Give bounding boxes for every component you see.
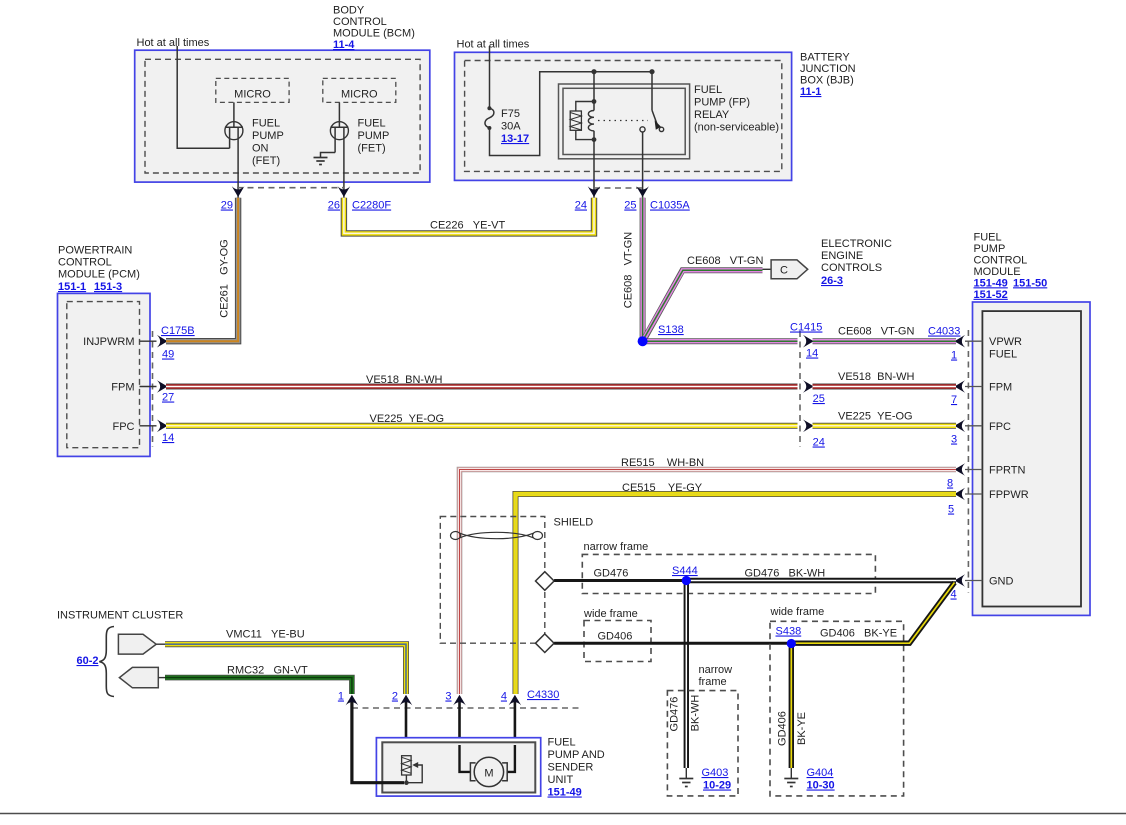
- svg-text:151-49: 151-49: [974, 277, 1008, 289]
- svg-text:CE608 VT-GN: CE608 VT-GN: [838, 326, 914, 338]
- C4330 pin 3 arrow: [458, 698, 461, 745]
- svg-text:49: 49: [162, 349, 174, 361]
- svg-text:GD406: GD406: [598, 631, 633, 643]
- svg-text:INSTRUMENT CLUSTER: INSTRUMENT CLUSTER: [57, 610, 183, 622]
- svg-text:3: 3: [445, 691, 451, 703]
- svg-text:VE225 YE-OG: VE225 YE-OG: [370, 413, 445, 425]
- svg-text:11-1: 11-1: [800, 86, 821, 98]
- splice S444: [682, 576, 691, 585]
- wire CE608 VT-GN (BJB 25 down to S138): [640, 198, 646, 338]
- C4330 pin 2 arrow: [405, 698, 408, 757]
- svg-text:5: 5: [948, 504, 954, 516]
- svg-text:151-3: 151-3: [94, 281, 122, 293]
- svg-text:PUMP: PUMP: [252, 130, 284, 142]
- module BCM box: [135, 50, 430, 182]
- svg-text:BOX (BJB): BOX (BJB): [800, 75, 854, 87]
- narrow frame lower dashed box: [667, 691, 738, 796]
- svg-text:INJPWRM: INJPWRM: [83, 336, 134, 348]
- relay coil: [588, 111, 594, 131]
- wire CE608 VT-GN (S138 to C1415): [643, 338, 798, 344]
- svg-text:C1035A: C1035A: [650, 200, 690, 212]
- dotted actuation line: [598, 120, 648, 122]
- svg-text:30A: 30A: [501, 121, 521, 133]
- pin FPC: [965, 425, 982, 427]
- wire RMC32 GN-VT: [165, 678, 352, 694]
- micro box 2: [323, 78, 396, 102]
- connector arrow (cluster out): [118, 634, 166, 654]
- svg-text:ENGINE: ENGINE: [821, 250, 863, 262]
- wire GD406 (diamond to S438): [554, 642, 791, 645]
- wire relay coil vertical to pin 24: [593, 72, 595, 198]
- svg-text:MODULE (PCM): MODULE (PCM): [58, 269, 140, 281]
- shield dashed box: [440, 517, 545, 644]
- wire pin3 to motor: [460, 745, 471, 772]
- svg-text:GD406: GD406: [777, 711, 789, 746]
- svg-text:MICRO: MICRO: [234, 89, 271, 101]
- FPCM inner box: [982, 311, 1081, 606]
- wire CE608 VT-GN (C1415 to FPCM 1): [813, 338, 957, 344]
- splice S138: [638, 336, 648, 346]
- svg-text:GD476: GD476: [669, 697, 681, 732]
- svg-text:FPPWR: FPPWR: [989, 489, 1029, 501]
- transistor FET2 (FUEL PUMP): [330, 122, 348, 198]
- svg-text:G404: G404: [807, 767, 834, 779]
- C1415 pin 24 arrow: [803, 420, 814, 433]
- svg-text:BK-YE: BK-YE: [796, 712, 808, 745]
- svg-text:151-52: 151-52: [974, 289, 1008, 301]
- narrow frame dashed box: [582, 554, 875, 593]
- wire VE225 YE-OG (PCM 14 to C1415): [166, 423, 798, 429]
- svg-text:29: 29: [221, 200, 233, 212]
- shield drain diamond (narrow frame): [536, 572, 555, 591]
- svg-text:C: C: [780, 265, 788, 277]
- wide frame big dashed box: [770, 621, 904, 796]
- motor M: [470, 757, 507, 786]
- svg-text:SENDER: SENDER: [548, 762, 594, 774]
- wire micro1 gate: [233, 102, 235, 127]
- svg-text:MICRO: MICRO: [341, 89, 378, 101]
- twisted pair symbol: [451, 532, 543, 540]
- svg-text:F75: F75: [501, 108, 520, 120]
- connector C4330 dashed line: [352, 707, 580, 709]
- wire hot feed through fuse to relay: [489, 46, 491, 107]
- svg-text:60-2: 60-2: [77, 655, 99, 667]
- svg-text:25: 25: [813, 393, 825, 405]
- wire VE518 BN-WH (C1415 to FPCM 7): [813, 384, 957, 390]
- wire VE518 BN-WH (PCM 27 to C1415): [166, 384, 798, 390]
- svg-text:13-17: 13-17: [501, 133, 529, 145]
- svg-text:PUMP AND: PUMP AND: [548, 749, 605, 761]
- connector C175B dashed line: [152, 331, 154, 447]
- node coil bottom: [592, 137, 597, 142]
- module BJB box: [455, 52, 792, 180]
- svg-text:14: 14: [162, 432, 174, 444]
- svg-text:1: 1: [338, 691, 344, 703]
- svg-text:GND: GND: [989, 576, 1014, 588]
- pin FPPWR: [965, 493, 982, 495]
- svg-text:CONTROL: CONTROL: [58, 257, 112, 269]
- shield drain diamond (wide frame): [536, 634, 555, 653]
- C4330 pin 4 arrow: [514, 698, 517, 745]
- svg-text:C4033: C4033: [928, 326, 960, 338]
- svg-text:151-1: 151-1: [58, 281, 86, 293]
- wide frame small dashed box: [584, 621, 651, 662]
- wire GD476 (diamond to S444): [554, 579, 686, 582]
- svg-text:M: M: [484, 768, 493, 780]
- svg-text:VPWR: VPWR: [989, 336, 1022, 348]
- wire CE515 YE-GY (FPCM 5 to C4330 4): [516, 494, 957, 694]
- wire pin1 to sender: [352, 740, 404, 783]
- svg-text:14: 14: [806, 348, 818, 360]
- svg-text:RELAY: RELAY: [694, 109, 730, 121]
- wire GD476 BK-WH (S444 down to G403): [684, 581, 689, 769]
- svg-text:(FET): (FET): [252, 155, 280, 167]
- svg-text:8: 8: [947, 478, 953, 490]
- svg-text:wide frame: wide frame: [770, 606, 825, 618]
- svg-text:7: 7: [951, 394, 957, 406]
- svg-text:FPC: FPC: [989, 421, 1011, 433]
- pin FPM: [965, 386, 982, 388]
- svg-text:S444: S444: [672, 565, 698, 577]
- pin 26 arrow C2280F: [338, 186, 351, 197]
- svg-text:Hot at all times: Hot at all times: [457, 39, 530, 51]
- svg-text:CE515 YE-GY: CE515 YE-GY: [622, 482, 703, 494]
- pin FPRTN: [965, 469, 982, 471]
- wire pin4 to motor: [507, 745, 515, 772]
- node sender junction: [404, 780, 409, 785]
- svg-text:MODULE (BCM): MODULE (BCM): [333, 28, 415, 40]
- svg-text:27: 27: [162, 392, 174, 404]
- connector C to electronic engine controls: [763, 260, 808, 279]
- svg-text:26-3: 26-3: [821, 275, 843, 287]
- module PCM box: [58, 293, 151, 456]
- pin 29 arrow: [232, 186, 245, 197]
- svg-text:narrow frame: narrow frame: [584, 541, 649, 553]
- svg-text:FPM: FPM: [111, 381, 134, 393]
- svg-text:1: 1: [951, 350, 957, 362]
- svg-text:GD476: GD476: [594, 568, 629, 580]
- svg-text:CE261 GY-OG: CE261 GY-OG: [219, 239, 231, 317]
- svg-text:GD476 BK-WH: GD476 BK-WH: [745, 568, 826, 580]
- svg-text:S438: S438: [776, 626, 802, 638]
- pin 25 arrow C1035A: [636, 186, 649, 197]
- wire micro2 gate: [338, 102, 340, 127]
- wire CE226 YE-VT (BCM 26 to BJB 24): [344, 198, 594, 234]
- C1415 pin 14 arrow: [803, 335, 814, 348]
- fuel pump unit box: [376, 738, 540, 796]
- connector dashed line below BCM: [237, 187, 344, 189]
- connector C1415 dashed line: [799, 331, 801, 447]
- svg-text:2: 2: [392, 691, 398, 703]
- wire RE515 WH-BN (FPCM 8 to C4330 3): [460, 470, 957, 695]
- BCM inner dashed outline: [145, 59, 420, 173]
- svg-text:3: 3: [951, 434, 957, 446]
- svg-text:FUEL: FUEL: [548, 737, 576, 749]
- wire VMC11 YE-BU: [165, 644, 406, 694]
- svg-text:S138: S138: [658, 324, 684, 336]
- svg-text:SHIELD: SHIELD: [554, 517, 594, 529]
- connector arrow (cluster in): [119, 667, 166, 687]
- svg-text:FUEL: FUEL: [252, 118, 280, 130]
- svg-text:GD406 BK-YE: GD406 BK-YE: [820, 628, 897, 640]
- svg-text:RMC32 GN-VT: RMC32 GN-VT: [227, 665, 308, 677]
- svg-text:11-4: 11-4: [333, 39, 355, 51]
- C1415 pin 25 arrow: [803, 380, 814, 393]
- svg-text:C175B: C175B: [161, 325, 195, 337]
- ground G404: [784, 768, 798, 787]
- svg-text:CE608 VT-GN: CE608 VT-GN: [687, 255, 763, 267]
- svg-text:VMC11 YE-BU: VMC11 YE-BU: [226, 629, 305, 641]
- svg-text:VE518 BN-WH: VE518 BN-WH: [366, 374, 442, 386]
- svg-text:PUMP: PUMP: [974, 243, 1006, 255]
- svg-text:MODULE: MODULE: [974, 266, 1021, 278]
- resistor (relay suppression): [570, 102, 594, 140]
- svg-text:BK-WH: BK-WH: [690, 695, 702, 732]
- svg-text:(non-serviceable): (non-serviceable): [694, 122, 779, 134]
- svg-text:10-29: 10-29: [703, 780, 731, 792]
- svg-text:24: 24: [575, 200, 587, 212]
- svg-text:BODY: BODY: [333, 5, 365, 17]
- wire hot feed into FET1: [177, 46, 229, 148]
- svg-text:26: 26: [328, 200, 340, 212]
- splice S438: [787, 639, 796, 648]
- sender resistor: [402, 756, 423, 783]
- fuse F75 30A: [485, 106, 494, 130]
- svg-text:POWERTRAIN: POWERTRAIN: [58, 245, 132, 257]
- pin GND: [965, 580, 982, 582]
- connector dashed line below BJB: [594, 187, 643, 189]
- svg-text:VE225 YE-OG: VE225 YE-OG: [838, 411, 913, 423]
- svg-text:FUEL: FUEL: [694, 84, 722, 96]
- micro box 1: [216, 78, 289, 102]
- wire GD406 BK-YE (S438 to FPCM GND): [791, 583, 954, 644]
- svg-text:BATTERY: BATTERY: [800, 52, 850, 64]
- module FPCM box: [973, 302, 1091, 615]
- ground (FET2 source): [314, 153, 336, 165]
- ground G403: [679, 768, 693, 787]
- svg-text:FUEL: FUEL: [358, 118, 386, 130]
- footer rule: [0, 813, 1126, 815]
- svg-text:FUEL: FUEL: [989, 349, 1017, 361]
- svg-text:UNIT: UNIT: [548, 774, 574, 786]
- svg-text:ON: ON: [252, 143, 269, 155]
- svg-text:CONTROL: CONTROL: [333, 16, 387, 28]
- svg-text:(FET): (FET): [358, 143, 386, 155]
- brace instrument cluster: [99, 627, 114, 697]
- svg-text:FPC: FPC: [113, 421, 135, 433]
- relay box: [559, 84, 690, 159]
- PCM inner dashed outline: [67, 302, 140, 448]
- svg-text:151-49: 151-49: [548, 787, 582, 799]
- pin VPWR FUEL: [965, 340, 982, 342]
- svg-text:frame: frame: [699, 676, 727, 688]
- svg-text:4: 4: [501, 691, 507, 703]
- pin 24 arrow: [588, 186, 601, 197]
- svg-text:Hot at all times: Hot at all times: [137, 37, 210, 49]
- node switch feed junction: [649, 69, 654, 74]
- wire CE261 GY-OG (BCM 29 to PCM 49): [166, 198, 238, 341]
- svg-text:FUEL: FUEL: [974, 231, 1002, 243]
- svg-text:CONTROL: CONTROL: [974, 254, 1028, 266]
- node coil top: [592, 99, 597, 104]
- node relay feed junction: [591, 69, 596, 74]
- svg-text:VE518 BN-WH: VE518 BN-WH: [838, 371, 914, 383]
- svg-text:RE515 WH-BN: RE515 WH-BN: [621, 457, 704, 469]
- svg-text:ELECTRONIC: ELECTRONIC: [821, 238, 892, 250]
- wire VE225 YE-OG (C1415 to FPCM 3): [813, 423, 957, 429]
- svg-text:CE608 VT-GN: CE608 VT-GN: [623, 232, 635, 308]
- relay switch: [640, 72, 664, 198]
- C4330 pin 1 arrow: [350, 698, 353, 740]
- svg-text:FPRTN: FPRTN: [989, 465, 1026, 477]
- svg-text:PUMP (FP): PUMP (FP): [694, 97, 750, 109]
- BJB inner dashed outline: [465, 61, 782, 172]
- wire GD406 BK-YE (S438 down to G404): [789, 643, 794, 768]
- svg-text:JUNCTION: JUNCTION: [800, 63, 856, 75]
- svg-text:24: 24: [813, 437, 825, 449]
- svg-text:10-30: 10-30: [807, 780, 835, 792]
- transistor FET1 (FUEL PUMP ON): [225, 122, 243, 198]
- svg-text:G403: G403: [702, 767, 729, 779]
- svg-text:151-50: 151-50: [1013, 277, 1047, 289]
- wire GD476 BK-WH (S444 to FPCM GND): [686, 578, 956, 583]
- svg-text:C2280F: C2280F: [352, 200, 391, 212]
- svg-text:wide frame: wide frame: [583, 608, 638, 620]
- svg-text:narrow: narrow: [699, 664, 733, 676]
- svg-text:C1415: C1415: [790, 322, 822, 334]
- svg-text:CONTROLS: CONTROLS: [821, 262, 882, 274]
- connector C4033 dashed line: [967, 330, 969, 593]
- svg-text:25: 25: [624, 200, 636, 212]
- wire CE608 VT-GN branch to EEC: [645, 270, 763, 338]
- svg-text:FPM: FPM: [989, 382, 1012, 394]
- svg-text:PUMP: PUMP: [358, 130, 390, 142]
- svg-text:C4330: C4330: [527, 689, 559, 701]
- svg-text:CE226 YE-VT: CE226 YE-VT: [430, 220, 505, 232]
